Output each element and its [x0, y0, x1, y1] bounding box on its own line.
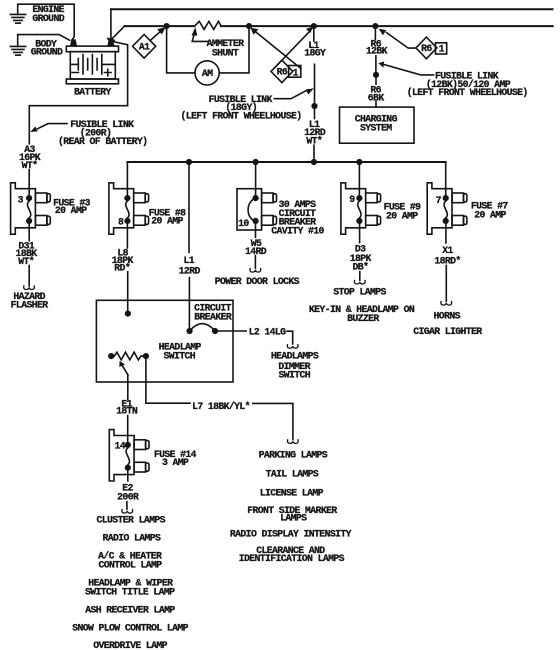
svg-text:POWER DOOR LOCKS: POWER DOOR LOCKS [215, 276, 300, 287]
svg-text:CAVITY #10: CAVITY #10 [271, 225, 324, 236]
svg-text:RADIO DISPLAY INTENSITY: RADIO DISPLAY INTENSITY [230, 529, 352, 540]
svg-text:12RD: 12RD [179, 265, 201, 276]
svg-text:8: 8 [118, 216, 124, 227]
svg-text:18TN: 18TN [116, 406, 138, 417]
svg-text:WT*: WT* [22, 160, 38, 171]
svg-text:BATTERY: BATTERY [74, 86, 112, 97]
svg-text:10: 10 [238, 218, 249, 229]
svg-text:SWITCH: SWITCH [164, 351, 196, 362]
svg-text:ASH RECEIVER LAMP: ASH RECEIVER LAMP [85, 604, 175, 615]
svg-text:(REAR OF BATTERY): (REAR OF BATTERY) [58, 136, 147, 147]
svg-text:7: 7 [436, 195, 442, 206]
svg-text:CLUSTER LAMPS: CLUSTER LAMPS [97, 514, 166, 525]
svg-text:SWITCH: SWITCH [279, 369, 311, 380]
svg-text:L1: L1 [184, 255, 195, 266]
svg-text:FLASHER: FLASHER [11, 300, 49, 311]
svg-text:IDENTIFICATION LAMPS: IDENTIFICATION LAMPS [239, 553, 345, 564]
svg-text:12BK: 12BK [366, 46, 388, 57]
svg-text:SWITCH TITLE LAMP: SWITCH TITLE LAMP [85, 586, 175, 597]
svg-text:RD*: RD* [114, 262, 130, 273]
svg-text:A1: A1 [139, 42, 150, 53]
svg-text:CONTROL LAMP: CONTROL LAMP [98, 559, 162, 570]
svg-text:BREAKER: BREAKER [194, 311, 232, 322]
svg-text:AM: AM [202, 68, 213, 79]
svg-text:LAMPS: LAMPS [280, 513, 307, 524]
svg-text:(LEFT FRONT WHEELHOUSE): (LEFT FRONT WHEELHOUSE) [181, 110, 302, 121]
svg-text:GROUND: GROUND [32, 13, 64, 24]
svg-text:TAIL LAMPS: TAIL LAMPS [266, 469, 319, 480]
svg-text:20 AMP: 20 AMP [474, 210, 506, 221]
svg-text:14: 14 [115, 440, 126, 451]
svg-text:WT*: WT* [306, 135, 322, 146]
svg-text:1: 1 [293, 67, 299, 78]
svg-text:18GY: 18GY [304, 47, 326, 58]
svg-text:L7 18BK/YL*: L7 18BK/YL* [192, 401, 250, 412]
svg-text:3 AMP: 3 AMP [162, 457, 189, 468]
svg-text:6BK: 6BK [368, 93, 385, 104]
svg-text:DB*: DB* [353, 262, 369, 273]
svg-text:PARKING LAMPS: PARKING LAMPS [259, 450, 328, 461]
svg-text:20 AMP: 20 AMP [151, 216, 183, 227]
svg-text:18RD*: 18RD* [434, 255, 460, 266]
svg-text:RADIO LAMPS: RADIO LAMPS [102, 533, 161, 544]
svg-text:STOP LAMPS: STOP LAMPS [333, 286, 386, 297]
svg-text:14RD: 14RD [245, 246, 267, 257]
svg-text:20 AMP: 20 AMP [55, 205, 87, 216]
svg-text:OVERDRIVE LAMP: OVERDRIVE LAMP [93, 640, 167, 650]
svg-text:SHUNT: SHUNT [212, 48, 239, 59]
svg-text:R6: R6 [421, 43, 432, 54]
svg-text:R6: R6 [277, 67, 288, 78]
svg-text:1: 1 [439, 44, 445, 55]
svg-text:SNOW PLOW CONTROL LAMP: SNOW PLOW CONTROL LAMP [72, 623, 188, 634]
svg-text:L2 14LG: L2 14LG [249, 326, 287, 337]
svg-text:20 AMP: 20 AMP [386, 210, 418, 221]
svg-text:(LEFT FRONT WHEELHOUSE): (LEFT FRONT WHEELHOUSE) [407, 87, 528, 98]
svg-text:GROUND: GROUND [31, 46, 63, 57]
svg-text:9: 9 [349, 194, 355, 205]
svg-text:CIGAR LIGHTER: CIGAR LIGHTER [413, 326, 482, 337]
svg-text:HORNS: HORNS [434, 311, 461, 322]
svg-text:200R: 200R [117, 492, 139, 503]
svg-text:BUZZER: BUZZER [347, 313, 379, 324]
svg-text:SYSTEM: SYSTEM [360, 122, 392, 133]
svg-text:3: 3 [18, 195, 24, 206]
svg-text:LICENSE LAMP: LICENSE LAMP [260, 487, 324, 498]
svg-text:WT*: WT* [18, 256, 34, 267]
